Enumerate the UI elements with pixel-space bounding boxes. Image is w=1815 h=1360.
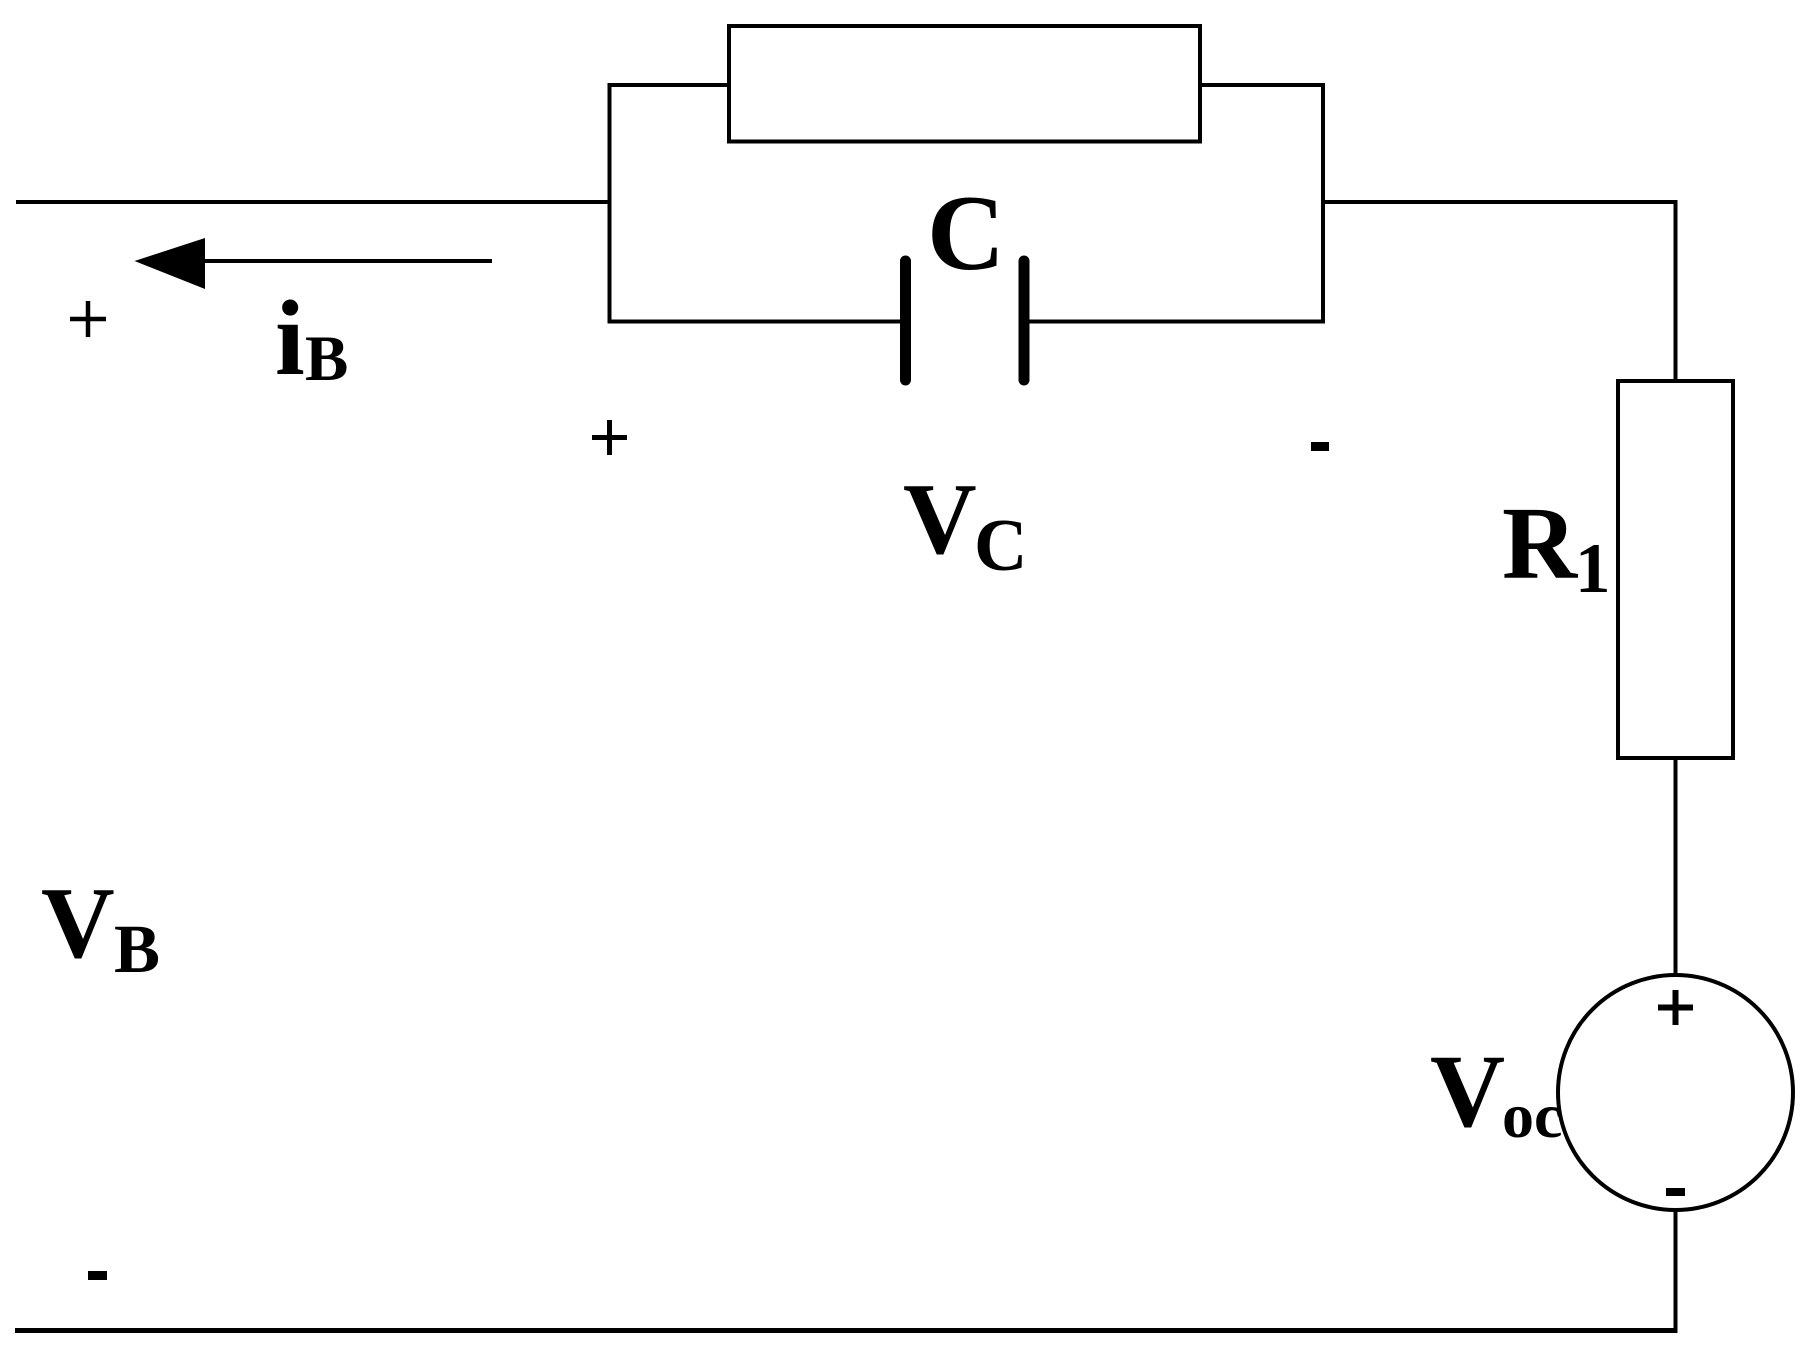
wire top branch right [1200,83,1325,87]
node right junction vertical [1321,83,1325,322]
capacitor C right plate [1019,261,1030,380]
svg-text:C: C [927,174,1005,293]
voltage source Voc circle [1558,975,1793,1210]
capacitor C left plate [900,261,911,380]
svg-text:1: 1 [1575,530,1611,608]
svg-text:B: B [305,323,348,395]
svg-text:V: V [41,867,115,980]
minus inside Voc [1666,1188,1685,1196]
plus VC [592,435,627,440]
arrow iB line [200,259,492,263]
wire source to bottom [1674,1210,1678,1333]
wire top right horizontal [1321,200,1676,204]
wire down to R1 [1674,200,1678,382]
wire top-left horizontal [16,200,610,204]
wire bottom horizontal [15,1328,1678,1333]
svg-text:C: C [974,505,1027,587]
arrow iB head [135,238,206,289]
plus VB [70,317,106,322]
wire R1 to source [1674,758,1678,975]
svg-text:i: i [275,280,305,398]
wire top branch left [608,83,730,87]
plus inside Voc [1658,1005,1693,1011]
minus VC [1311,442,1329,451]
wire bottom branch right [1024,320,1325,324]
minus VB [88,1271,107,1280]
svg-text:V: V [903,463,977,576]
wire bottom branch left [608,320,906,324]
svg-text:B: B [114,911,160,987]
svg-text:V: V [1430,1034,1505,1149]
node left junction vertical [608,83,612,322]
resistor (parallel box, unlabeled) [729,26,1200,142]
svg-text:oc: oc [1502,1080,1562,1151]
resistor R1 [1618,381,1733,758]
svg-text:R: R [1502,486,1579,601]
